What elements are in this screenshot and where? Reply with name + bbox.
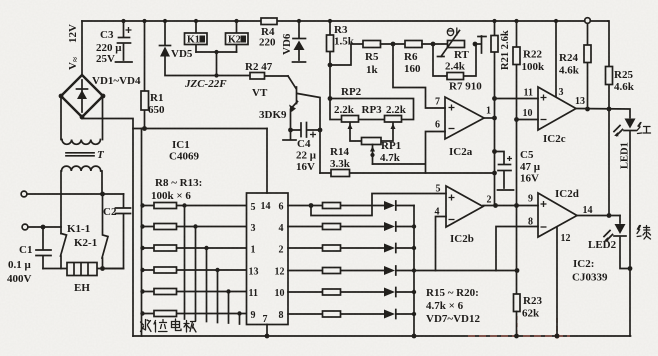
resistor R22 [513,19,520,294]
wire reference line pin4/pin8/R23 [414,270,517,272]
resistor R3 [327,21,334,99]
node pin7 tap [391,42,396,47]
node pin3 on rail [554,19,558,23]
electrode probe 2 [193,224,197,320]
wire IC2c output 13 [576,107,630,118]
node RT right [473,42,478,47]
ground bottom rail [133,335,631,337]
resistor R21 [491,19,498,206]
wire LED1 cathode rail [629,132,631,336]
IC1 pin box [247,193,289,325]
node K2 tap [234,19,238,23]
terminal AC line 1 [21,191,123,197]
resistor R6 [405,41,422,48]
transistor VT 3DK9 [288,76,320,130]
label IC1 C4069 [169,139,199,163]
transformer T secondary winding [61,96,103,144]
capacitor C1 [36,227,51,269]
wire IC2d ground pin 12 [556,227,558,336]
resistor R14 [320,170,495,177]
resistor R7 parallel loop [433,44,476,80]
node VD6 tap [297,19,301,23]
label V~ 12V supply [67,24,80,70]
label R8~R13 100k x 6 [151,177,202,202]
wire IC2d output 14 [577,213,620,218]
label R23 62k [522,295,542,320]
capacitor C4 [291,123,321,138]
resistor R23 [514,294,521,338]
resistor R17 + diode VD9 row [288,244,414,253]
node primary right / K2-1 top [100,192,105,197]
label R3 1.5k [334,24,355,48]
wire R5 to R6 [381,43,406,45]
electrode probe 6 [237,311,241,324]
node RT left [431,42,436,47]
electrode probe 5 [226,289,230,323]
wire R6 to RT [422,43,448,45]
node K2-1 bottom [100,266,105,271]
node pin4 on reference line [515,268,520,273]
node C4 right [318,128,323,133]
terminal AC line 2 [22,224,61,230]
red scan artifact on rail [468,316,570,336]
node emitter / C4 left [288,128,293,133]
op-amp IC2d [538,193,577,237]
ground bar at VT emitter [283,130,296,140]
switch contact K1-1 [61,234,67,269]
diode VD5 [160,21,217,76]
capacitor C5 [492,149,513,190]
relay coil K2 [226,21,249,52]
node pin5 tap on row1 [309,203,314,208]
wire IC1 box top edge [133,128,267,130]
potentiometer block RP2/RP3 [328,96,414,119]
label R1 650 [148,92,165,116]
node R1 bottom [142,126,147,131]
wire IC2c pin10 from divider rail [514,117,538,122]
resistor R25 [606,21,613,216]
label C5 47u 16V [520,149,541,185]
label R5 1k [365,51,379,76]
label C3 220u 25V [96,29,122,65]
resistor R9 row [140,224,246,230]
red junction blob [554,333,559,338]
node pin12 at rail [555,334,560,339]
wire heater line [43,268,124,270]
node output rail top joins [492,116,497,121]
potentiometer RP1 [362,138,382,165]
resistor R20 + diode VD12 row [288,310,414,319]
transformer T core [66,153,94,156]
op-amp IC2c [538,87,576,130]
op-amp IC2b [446,186,483,227]
node R3 tap [328,19,332,23]
label C1 0.1u 400V [7,244,32,285]
capacitor C3 [116,21,133,62]
node K1 tap [194,19,198,23]
wire pin 7 to ground rail [265,325,270,339]
wire diode cathode bus [412,206,417,339]
resistor R4 (series in rail) [261,18,277,25]
wire IC2b output to IC2d pin9 [483,203,538,208]
label RP1 4.7k [380,140,401,164]
resistor R8 row [140,203,246,209]
label water level electrodes (shui wei dian ji) [141,319,197,332]
wire IC2b pin5 path [311,194,446,216]
wire relay common [196,50,237,78]
wire IC2d pin8 to reference [496,227,538,271]
node R3 bottom [328,63,333,68]
wire pin7 path [393,44,445,108]
node R1 tap [142,19,146,23]
wire pin 14 to top edge [266,129,268,194]
label RT 2.4k [445,49,470,73]
label 2.2k RP3 2.2k [334,104,407,116]
LED2 [604,216,630,269]
electrode probe 1 [182,203,186,319]
node VD5 tap [163,19,167,23]
resistor R16 + diode VD8 row [288,222,414,231]
resistor R10 row [140,245,246,251]
potentiometer RP3 right element [381,116,402,142]
thermistor RT [438,31,465,57]
node C3 tap [121,19,125,23]
resistor R19 + diode VD11 row [288,288,414,297]
label theta temperature mark [447,28,457,36]
scan noise overlay [0,0,1,1]
resistor R12 row [140,289,246,295]
LED1 [614,119,636,139]
resistor R1 [141,21,149,129]
label red (hong) [637,123,651,134]
wire R3 node to R5 [330,44,363,65]
label R6 160 [404,51,421,75]
op-amp IC2a [445,97,484,139]
label R24 4.6k [559,52,580,77]
heater EH [67,263,97,276]
resistor R11 row [140,267,246,273]
diode VD6 [293,21,306,62]
label R22 100k [522,49,546,74]
wire bridge negative to bottom rail [82,119,133,337]
resistor R24 [584,18,591,109]
resistor R15 + diode VD7 row [288,201,414,210]
label R4 220 [259,26,276,49]
wire IC1 box left edge [141,129,143,337]
resistor R5 [363,41,381,48]
resistor R18 + diode VD10 row [288,266,414,275]
potentiometer RP3 left element [342,116,363,142]
rectifier bridge VD1-VD4 [59,75,106,119]
capacitor C2 [103,194,131,269]
wire IC2a output [484,117,495,119]
wire IC2b pin4 [436,217,447,271]
label R15~R20 4.7k x 6 VD7~VD12 [426,287,480,325]
wire RP1 wiper to pin6 [373,132,446,174]
wire bridge positive lead [81,21,83,75]
electrode probe 4 [215,268,219,323]
label R14 3.3k [330,146,351,170]
label green (lv) [637,226,651,240]
switch contact K2-1 [102,194,108,269]
label IC2: CJ0339 [572,258,608,284]
transformer T primary winding [61,166,102,233]
relay coil K1 [185,21,208,52]
node C1 tap [41,225,46,230]
resistor R13 row [140,311,246,317]
resistor R2 [217,73,289,80]
wire IC2c power pin 3 [555,21,557,96]
wire IC2c pin11 from output rail [492,96,538,101]
label R25 4.6k [614,69,635,93]
sensor stub bar [475,36,486,53]
node R14 line on rail [492,171,497,176]
wire +12V top rail [82,20,608,22]
label C4 22u 16V [296,138,317,173]
wire C4 node to R14 line [319,130,321,173]
electrode probe 3 [204,246,208,322]
node LED paths join [628,266,633,271]
